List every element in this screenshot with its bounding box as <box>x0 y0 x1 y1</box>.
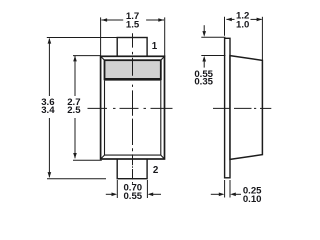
svg-text:1.0: 1.0 <box>236 19 249 30</box>
svg-text:1.5: 1.5 <box>126 20 140 31</box>
pin 1 top lead <box>117 38 147 57</box>
svg-text:0.55: 0.55 <box>123 191 142 202</box>
side view lead strip <box>225 38 230 178</box>
dimension 1.2/1.0 side width <box>225 17 263 60</box>
package body outline (front view) <box>101 56 165 159</box>
dimension 0.70/0.55 lead width <box>106 180 161 198</box>
pin 1 label <box>152 41 158 52</box>
pin 2 label <box>153 165 159 176</box>
dimension 0.55/0.35 stand-off <box>201 25 225 67</box>
svg-text:2: 2 <box>153 165 159 176</box>
cathode band <box>105 60 161 79</box>
dimension 0.25/0.10 lead thickness <box>211 180 241 198</box>
svg-text:1: 1 <box>152 41 158 52</box>
svg-text:3.4: 3.4 <box>41 105 55 116</box>
pin 2 bottom lead <box>117 159 147 179</box>
body corner bevels <box>101 56 165 159</box>
dimension 2.7/2.5 body height <box>73 56 102 161</box>
svg-text:0.10: 0.10 <box>243 194 262 203</box>
horizontal centerline (side view) <box>213 107 271 109</box>
side view molded body <box>230 56 262 160</box>
dimension 1.7/1.5 body width <box>101 17 165 56</box>
vertical centerline (front view) <box>132 33 134 184</box>
svg-text:2.5: 2.5 <box>67 105 81 116</box>
dimension 3.6/3.4 overall height <box>47 38 117 179</box>
svg-text:0.35: 0.35 <box>194 77 213 88</box>
horizontal centerline (front view) <box>88 107 173 109</box>
inner mold lines <box>105 80 161 155</box>
